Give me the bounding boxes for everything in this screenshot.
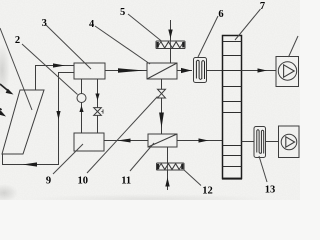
leader line 6 (198, 16, 218, 57)
svg-text:3: 3 (42, 18, 47, 29)
svg-text:9: 9 (46, 175, 51, 186)
svg-text:2: 2 (15, 35, 20, 46)
arrow down into box 11 (159, 113, 164, 129)
solar radiation arrow b (0, 110, 6, 116)
svg-text:11: 11 (121, 175, 131, 186)
arrow down on return riser (56, 111, 60, 120)
box 4 (heat exchanger) (147, 63, 177, 79)
arrow left into box 9 (118, 139, 131, 143)
column 7 (223, 36, 242, 179)
wire: box3 down to valve (97, 79, 99, 108)
box 9 (regenerator tank) (74, 133, 104, 151)
leader line 1 (to collector) (0, 28, 32, 110)
leader line 13 (259, 156, 267, 182)
leader line 11 (130, 143, 154, 171)
box 3 (generator) (74, 63, 105, 79)
box 11 (heat exchanger) (148, 134, 177, 147)
svg-text:7: 7 (260, 1, 265, 12)
arrow up into pump (79, 106, 83, 113)
wire: coil13 to fan (266, 141, 279, 143)
wire: collector top to box 3 (36, 66, 75, 91)
wire: valve to box 9 (97, 115, 99, 133)
wire: box3 to box4 (105, 70, 147, 72)
wire: coil6 to column (207, 70, 223, 72)
pump 2 (77, 94, 86, 103)
wire: pump to box 9 (81, 103, 83, 134)
arrow right toward column (199, 138, 209, 142)
arrow right mid wire (118, 68, 145, 72)
svg-text:10: 10 (78, 175, 89, 186)
svg-text:4: 4 (89, 19, 95, 30)
arrow into box 3 (53, 63, 65, 67)
wire: box 3 return to collector bottom (3, 73, 75, 165)
leader line 4 (95, 26, 150, 64)
air inlet stub into heater 5 (170, 20, 172, 41)
solar collector 1 (2, 90, 44, 154)
wire: box11 to column (177, 140, 223, 142)
valve 10 (expansion valve) (161, 79, 163, 89)
fan 8 (top right) (276, 57, 299, 87)
wire: box11 to heater 12 (167, 148, 169, 164)
heater 12 (157, 163, 185, 170)
svg-text:12: 12 (202, 186, 213, 197)
svg-text:13: 13 (265, 185, 276, 196)
svg-text:6: 6 (218, 9, 223, 20)
solar radiation arrow a (6, 89, 14, 95)
leader line 3 (46, 25, 91, 69)
heater 5 (156, 41, 185, 49)
wire: box9 to box11 (104, 140, 148, 142)
wire: column to coil 13 (242, 141, 255, 143)
valve (bowtie below box 3) (94, 108, 102, 112)
leader line 8 (cut off) (289, 36, 299, 57)
leader line 9 (53, 144, 83, 174)
coil 13 (254, 127, 266, 158)
coil 6 (194, 58, 207, 83)
wire: box3 to pump 2 (81, 79, 83, 94)
svg-text:5: 5 (120, 7, 125, 18)
arrow down toward valve (95, 94, 99, 101)
fan (bottom right) (279, 126, 300, 158)
leader line 10 (87, 97, 158, 174)
label 2 (15, 1, 275, 196)
wire: column to fan 8 (242, 70, 277, 72)
leader line 7 (235, 9, 261, 40)
leader line 2 (22, 44, 78, 95)
arrow left on bottom return (23, 162, 38, 166)
leader line 12 (184, 170, 202, 186)
thick arrow box4 to coil 6 (177, 70, 192, 72)
air stub below heater 12 (167, 170, 169, 190)
wire: heater 5 to box 4 (170, 49, 172, 64)
leader line 5 (128, 14, 162, 42)
